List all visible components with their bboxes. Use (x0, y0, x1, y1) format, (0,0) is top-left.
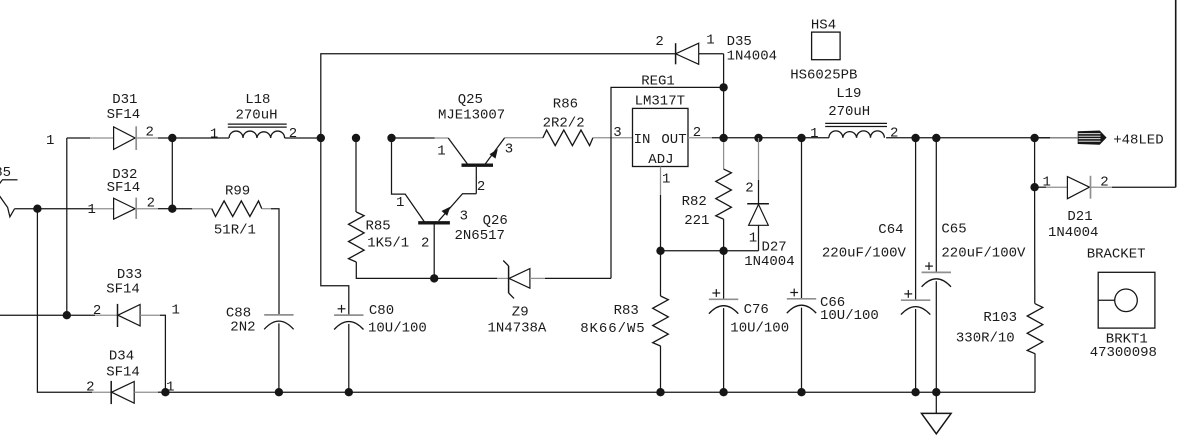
svg-text:L19: L19 (836, 86, 861, 102)
svg-text:LM317T: LM317T (635, 94, 685, 110)
junction D35 anode / OUT node (719, 83, 727, 91)
svg-text:R82: R82 (682, 194, 707, 210)
ground symbol (922, 392, 952, 434)
svg-text:1: 1 (749, 231, 757, 247)
wire to Z9 cathode (434, 277, 497, 279)
resistor R99 51R/1 (172, 201, 279, 315)
svg-text:10U/100: 10U/100 (820, 308, 879, 324)
svg-text:3: 3 (460, 208, 468, 224)
svg-text:SF14: SF14 (106, 282, 140, 298)
inductor L19 270uH (825, 123, 887, 137)
resistor R103 330R/10 (1027, 187, 1043, 392)
svg-text:1N4004: 1N4004 (727, 49, 777, 65)
svg-text:BRACKET: BRACKET (1087, 247, 1146, 263)
inductor L18 270uH (172, 124, 320, 138)
svg-text:10U/100: 10U/100 (368, 321, 427, 337)
svg-text:1N4004: 1N4004 (1048, 225, 1098, 241)
svg-text:ADJ: ADJ (648, 152, 673, 168)
svg-text:D31: D31 (112, 92, 137, 108)
junction L18 / top loop (317, 134, 325, 142)
svg-text:1K5/1: 1K5/1 (367, 236, 409, 252)
regulator REG1 LM317T (633, 108, 689, 167)
junction D32 cathode / R99 (168, 205, 176, 213)
svg-text:85: 85 (0, 165, 11, 181)
wire top loop to D35 cathode (321, 54, 676, 138)
junction C80/ground rail (345, 388, 353, 396)
svg-text:221: 221 (684, 213, 709, 229)
capacitor C64 220uF/100V (901, 138, 930, 392)
svg-text:47300098: 47300098 (1090, 345, 1157, 361)
resistor R83 8K66/W5 (653, 251, 669, 392)
junction D31/D32 cathodes (168, 134, 176, 142)
svg-text:1: 1 (1043, 175, 1051, 191)
svg-text:3: 3 (505, 142, 513, 158)
svg-text:270uH: 270uH (828, 104, 870, 120)
svg-text:2: 2 (745, 180, 753, 196)
svg-text:2: 2 (1100, 175, 1108, 191)
svg-text:1: 1 (437, 144, 445, 160)
svg-text:2: 2 (421, 236, 429, 252)
bracket BRKT1 47300098 (1098, 272, 1155, 328)
junction C65/ground rail (932, 388, 940, 396)
svg-text:OUT: OUT (661, 132, 686, 148)
svg-text:1: 1 (46, 133, 54, 149)
wire rail down to D21 (1034, 138, 1036, 187)
svg-text:2: 2 (477, 179, 485, 195)
svg-text:1: 1 (396, 195, 404, 211)
resistor R86 2R2/2 (505, 130, 633, 146)
svg-text:Q26: Q26 (483, 213, 508, 229)
diode D32 SF14 (92, 198, 172, 220)
transistor Q25 MJE13007 (392, 138, 505, 194)
svg-text:1: 1 (172, 302, 180, 318)
wire left column down to D34 (37, 209, 92, 393)
junction C64/ground rail (911, 388, 919, 396)
svg-text:R99: R99 (225, 183, 250, 199)
junction Q26 base (387, 134, 395, 142)
junction D21/R103 (1030, 183, 1038, 191)
svg-text:HS6025PB: HS6025PB (790, 68, 857, 84)
capacitor C66 10U/100 (787, 138, 816, 392)
svg-text:2: 2 (93, 303, 101, 319)
diode D33 SF14 (0, 304, 165, 392)
svg-text:2N2: 2N2 (230, 319, 255, 335)
svg-text:HS4: HS4 (811, 17, 836, 33)
connector +48LED (1035, 131, 1107, 145)
svg-text:D21: D21 (1067, 209, 1092, 225)
svg-text:SF14: SF14 (107, 107, 141, 123)
junction D33 anode / D31 wire (63, 311, 71, 319)
svg-text:2: 2 (655, 34, 663, 50)
diode D35 1N4004 (676, 43, 724, 138)
svg-text:1N4004: 1N4004 (744, 254, 794, 270)
svg-text:10U/100: 10U/100 (730, 321, 789, 337)
wire Z9 to OUT node (611, 87, 724, 278)
svg-text:2N6517: 2N6517 (455, 228, 505, 244)
svg-text:Z9: Z9 (512, 304, 529, 320)
svg-text:2: 2 (86, 379, 94, 395)
capacitor C88 2N2 (264, 315, 293, 392)
svg-text:SF14: SF14 (106, 365, 140, 381)
svg-text:L18: L18 (245, 92, 270, 108)
svg-text:1: 1 (662, 172, 670, 188)
junction rail / D27 (754, 134, 762, 142)
junction rail / C66 (797, 134, 805, 142)
capacitor C76 10U/100 (709, 251, 738, 392)
transistor Q26 2N6517 (392, 138, 477, 278)
wire down to C80 (321, 138, 349, 315)
svg-text:2: 2 (146, 124, 154, 140)
svg-text:D27: D27 (762, 239, 787, 255)
svg-text:2: 2 (890, 126, 898, 142)
wire ADJ pin down (660, 167, 662, 251)
junction C66/ground rail (797, 388, 805, 396)
heatsink HS4 HS6025PB (812, 32, 841, 60)
junction R82/C76/D27 (719, 247, 727, 255)
capacitor C80 10U/100 (334, 305, 363, 392)
junction D33/D34 (161, 388, 169, 396)
resistor R85 (partial, clipped at page edge) (0, 165, 17, 217)
svg-text:1N4738A: 1N4738A (488, 321, 547, 337)
junction ADJ/R83 (656, 247, 664, 255)
svg-text:8K66/W5: 8K66/W5 (580, 321, 645, 337)
diode D34 SF14 (92, 381, 165, 404)
svg-text:REG1: REG1 (641, 74, 675, 90)
svg-text:C80: C80 (369, 303, 394, 319)
resistor R85 1K5/1 (349, 138, 435, 278)
svg-text:2: 2 (147, 195, 155, 211)
svg-text:MJE13007: MJE13007 (438, 108, 505, 124)
capacitor C65 220uF/100V (922, 138, 951, 392)
svg-text:+48LED: +48LED (1113, 133, 1163, 149)
wire OUT pin to rail (688, 137, 1078, 139)
junction R85 top (352, 134, 360, 142)
svg-text:220uF/100V: 220uF/100V (822, 246, 907, 262)
junction rail / C65 (932, 134, 940, 142)
svg-text:IN: IN (634, 132, 651, 148)
junction OUT rail / D35 (719, 134, 727, 142)
svg-text:R85: R85 (366, 219, 391, 235)
zener diode Z9 1N4738A (497, 261, 611, 299)
ground rail wire (165, 391, 1035, 393)
wire ADJ node (661, 250, 759, 252)
svg-text:1: 1 (706, 32, 714, 48)
diode D21 1N4004 (1035, 176, 1176, 199)
junction Q26 collector / zener wire (430, 274, 438, 282)
svg-text:C64: C64 (878, 222, 903, 238)
junction C76/ground rail (719, 388, 727, 396)
svg-text:SF14: SF14 (107, 180, 141, 196)
svg-text:Q25: Q25 (458, 92, 483, 108)
wire D21 cathode up to page edge (1175, 0, 1177, 187)
junction at left column (33, 205, 41, 213)
svg-text:1: 1 (210, 127, 218, 143)
svg-text:2: 2 (289, 126, 297, 142)
svg-text:C76: C76 (744, 302, 769, 318)
resistor R82 221 (716, 142, 732, 251)
svg-text:R103: R103 (983, 310, 1017, 326)
svg-text:1: 1 (88, 202, 96, 218)
wire D31-D32 cathode tie (171, 138, 173, 209)
svg-text:3: 3 (613, 125, 621, 141)
svg-text:220uF/100V: 220uF/100V (941, 246, 1026, 262)
svg-text:D34: D34 (109, 348, 134, 364)
diode D31 SF14 (67, 126, 173, 150)
svg-text:R86: R86 (553, 97, 578, 113)
diode D27 1N4004 (747, 138, 769, 251)
svg-text:C65: C65 (941, 222, 966, 238)
junction C88/ground rail (275, 388, 283, 396)
svg-text:R83: R83 (614, 303, 639, 319)
wire node to D32 anode (15, 208, 92, 210)
junction rail / +48LED branch (1030, 134, 1038, 142)
svg-text:2R2/2: 2R2/2 (543, 115, 585, 131)
svg-text:51R/1: 51R/1 (214, 223, 256, 239)
junction R83/ground rail (656, 388, 664, 396)
junction rail / C64 (911, 134, 919, 142)
svg-text:1: 1 (810, 126, 818, 142)
wire D31 anode down to D33 node (66, 138, 68, 315)
svg-text:270uH: 270uH (236, 107, 278, 123)
svg-text:330R/10: 330R/10 (956, 330, 1015, 346)
